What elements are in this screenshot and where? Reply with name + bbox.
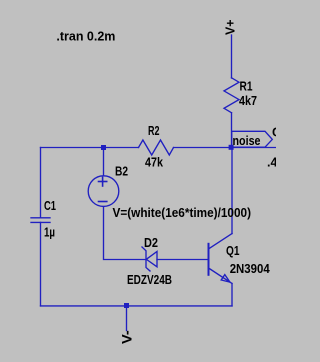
junction node B2 top — [101, 145, 106, 150]
voltage source B2 circle — [88, 176, 119, 207]
wire C1 to bottom rail — [40, 222, 42, 306]
svg-text:4k7: 4k7 — [239, 94, 257, 108]
wire D2 to Q1 base — [157, 259, 208, 261]
wire stub V- flag — [126, 306, 128, 331]
svg-text:D2: D2 — [144, 236, 158, 250]
svg-text:V-: V- — [119, 330, 134, 344]
svg-text:C2: C2 — [272, 126, 276, 140]
svg-text:V+: V+ — [223, 19, 238, 35]
svg-text:.tran 0.2m: .tran 0.2m — [56, 28, 115, 43]
svg-text:B2: B2 — [115, 164, 128, 178]
resistor R1 — [224, 78, 239, 113]
resistor R2 — [139, 140, 174, 155]
transistor Q1 base bar — [208, 244, 210, 275]
wire left drop to C1 — [40, 148, 42, 218]
Q1 emitter arrow — [221, 275, 230, 283]
svg-text:.47µ: .47µ — [267, 156, 276, 170]
junction node noise — [229, 145, 234, 150]
Q1 collector diagonal — [209, 234, 233, 250]
svg-text:EDZV24B: EDZV24B — [127, 273, 172, 287]
svg-text:noise: noise — [233, 133, 261, 148]
svg-text:2N3904: 2N3904 — [230, 262, 270, 276]
flag V+ wire stub — [231, 35, 233, 78]
svg-text:R2: R2 — [148, 124, 160, 138]
svg-text:1µ: 1µ — [44, 226, 55, 240]
voltage source B2 stub top — [103, 148, 105, 176]
B2 minus sign — [99, 201, 107, 203]
wire emitter down — [231, 284, 233, 306]
zener diode D2 cathode bar — [142, 247, 150, 271]
svg-text:C1: C1 — [44, 199, 56, 213]
svg-text:V=(white(1e6*time)/1000): V=(white(1e6*time)/1000) — [113, 206, 252, 220]
zener diode D2 triangle — [146, 252, 157, 267]
wire top rail left segment — [41, 147, 139, 149]
junction node bottom rail — [124, 303, 129, 308]
Q1 emitter diagonal — [209, 268, 233, 284]
svg-text:R1: R1 — [240, 80, 253, 94]
wire collector up to node — [231, 148, 233, 234]
svg-text:Q1: Q1 — [226, 244, 240, 258]
wire R1 bottom to node noise — [231, 113, 233, 148]
capacitor C1 — [31, 217, 50, 219]
B2 plus sign — [99, 177, 107, 186]
wire B2 bottom — [104, 207, 147, 260]
svg-text:47k: 47k — [145, 156, 163, 170]
wire R2 to right edge through node — [174, 147, 277, 149]
wire bottom rail — [41, 305, 233, 307]
noise output flag outline — [232, 131, 273, 147]
